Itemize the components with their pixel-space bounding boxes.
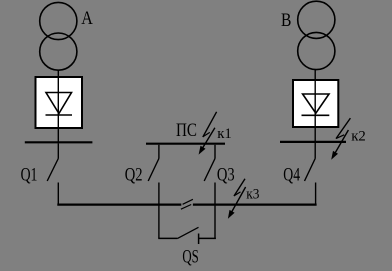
svg-text:Q3: Q3 xyxy=(217,165,235,186)
breaker Q3 xyxy=(204,145,215,239)
svg-text:QS: QS xyxy=(182,247,198,268)
disconnector QS bypass loop xyxy=(158,227,216,244)
breaker Q1 xyxy=(47,143,58,204)
converter box U-A (white rectifier block) xyxy=(36,77,83,128)
svg-text:A: A xyxy=(81,8,93,29)
wire QS bottom right xyxy=(199,237,216,239)
converter box U-B (white rectifier block) xyxy=(293,80,338,127)
svg-text:к3: к3 xyxy=(246,187,259,203)
fault arrow k1 xyxy=(199,112,217,155)
svg-text:ПС: ПС xyxy=(176,120,197,141)
fault arrow k2 xyxy=(331,118,350,160)
QS fixed contact xyxy=(198,234,200,245)
transformer T-A (two winding circles) xyxy=(40,2,77,70)
svg-text:к1: к1 xyxy=(217,126,232,142)
diode symbol in U-B xyxy=(302,94,330,115)
breaker Q2 xyxy=(148,145,159,239)
node PS busbar xyxy=(146,143,225,145)
lower busbar right segment xyxy=(193,204,317,206)
wire: transformer B to right bus (through converter box) xyxy=(293,70,338,142)
wire B vertical xyxy=(314,70,316,142)
svg-text:к2: к2 xyxy=(351,129,366,145)
diode symbol in U-A xyxy=(46,93,73,116)
wire QS bottom left xyxy=(158,237,177,239)
svg-text:B: B xyxy=(281,10,291,31)
svg-text:Q2: Q2 xyxy=(125,165,143,186)
bus break mark (double slash) xyxy=(181,199,193,209)
left busbar xyxy=(25,141,93,143)
lower busbar left segment xyxy=(57,204,181,206)
transformer T-B (two winding circles) xyxy=(298,1,335,69)
right busbar xyxy=(280,141,346,143)
wire: transformer A to left bus (through converter box) xyxy=(36,70,83,142)
svg-text:Q1: Q1 xyxy=(21,165,38,186)
breaker Q4 xyxy=(305,143,316,205)
svg-text:Q4: Q4 xyxy=(283,165,300,186)
fault arrow k3 xyxy=(228,179,246,219)
QS blade xyxy=(177,227,198,238)
wire A vertical xyxy=(57,70,59,142)
